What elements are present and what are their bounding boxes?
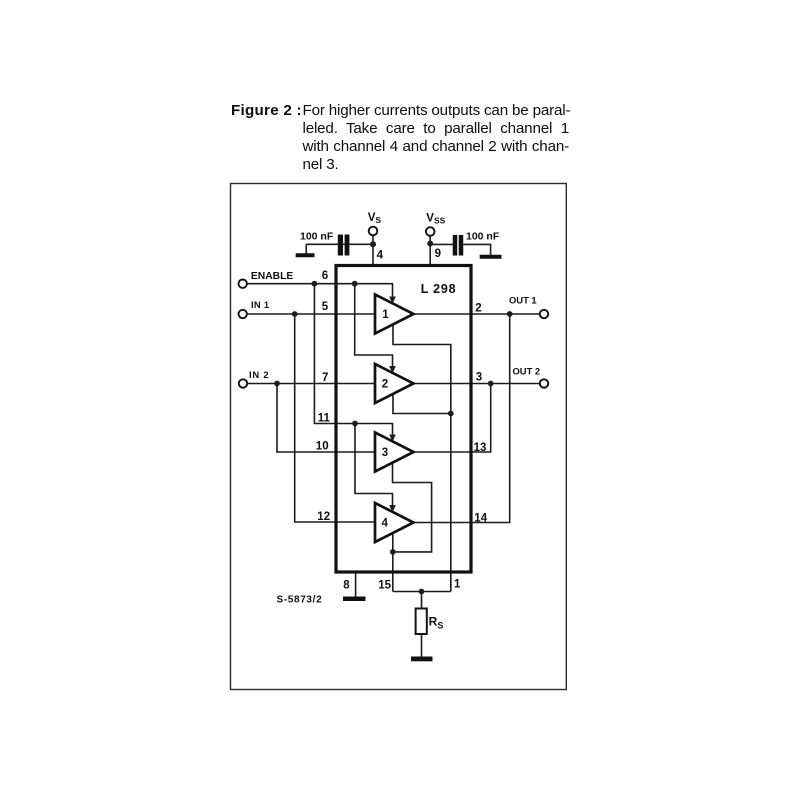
svg-text:OUT 1: OUT 1 — [509, 295, 537, 306]
svg-text:2: 2 — [475, 303, 481, 315]
arrowhead into amp2 — [389, 366, 396, 373]
Vss terminal circle — [426, 227, 435, 236]
wire dot A down to pin 11 row — [314, 284, 392, 436]
svg-text:12: 12 — [317, 511, 330, 523]
wire Vss to node — [429, 236, 431, 244]
svg-text:S: S — [375, 215, 381, 225]
node dot under Vs — [370, 241, 376, 247]
wire C1 to ground — [305, 244, 307, 254]
wire IN2 to pin 7 — [247, 383, 375, 385]
wire Vs to node — [372, 235, 374, 244]
svg-text:SS: SS — [434, 216, 446, 226]
wire joining pin 15 and pin 1 — [393, 591, 451, 593]
terminal IN2 — [239, 379, 247, 387]
svg-text:1: 1 — [454, 579, 461, 591]
wire IN2 dot down to pin 10 row — [277, 384, 375, 453]
svg-text:IN 1: IN 1 — [251, 299, 269, 310]
node dot on IN1 line — [292, 311, 298, 317]
node dot on pin 11 row — [352, 421, 358, 427]
arrowhead into amp3 — [389, 435, 396, 442]
svg-text:13: 13 — [474, 442, 487, 454]
terminal OUT2 — [540, 379, 548, 387]
figure caption — [231, 101, 571, 103]
ground bar below Rs — [411, 657, 433, 662]
wire Vss node to capacitor C2 — [430, 243, 453, 245]
svg-text:4: 4 — [377, 250, 384, 262]
node dot on IN2 line — [274, 381, 280, 387]
node dot B on ENABLE line — [352, 281, 358, 287]
ground bar pin 8 — [343, 597, 366, 602]
svg-text:ENABLE: ENABLE — [251, 271, 293, 282]
ground bar left — [296, 253, 315, 257]
wire amp4 output pin 14 up to OUT1 — [414, 314, 510, 523]
svg-text:10: 10 — [316, 441, 329, 453]
svg-text:4: 4 — [382, 517, 389, 529]
wire IN1 dot down to pin 12 row — [295, 314, 375, 522]
svg-text:11: 11 — [318, 413, 331, 425]
wire C2 to ground — [463, 244, 490, 255]
wire Rs to ground — [421, 634, 423, 657]
wire capacitor C1 to Vs node — [306, 243, 373, 245]
wire amp2 sense down — [393, 393, 451, 413]
svg-text:3: 3 — [476, 372, 482, 384]
terminal ENABLE — [239, 280, 247, 288]
svg-text:7: 7 — [322, 372, 328, 384]
wire amp1 sense down — [393, 324, 451, 414]
wire amp2 output to OUT2 — [414, 383, 540, 385]
capacitor C1 plates — [338, 235, 343, 256]
wire amp4 sense down to pin 15 — [392, 533, 394, 592]
svg-text:1: 1 — [382, 309, 389, 321]
node dot A on ENABLE line — [312, 281, 318, 287]
node dot under Vss — [427, 241, 433, 247]
node dot on OUT1 line — [507, 311, 513, 317]
node dot sense A join — [448, 411, 454, 417]
svg-text:8: 8 — [343, 580, 350, 592]
node dot at Rs top — [419, 589, 425, 595]
wire dot B to amp2 enable — [355, 284, 393, 368]
svg-text:L 298: L 298 — [421, 282, 457, 296]
svg-text:6: 6 — [322, 270, 328, 282]
svg-text:S-5873/2: S-5873/2 — [277, 595, 323, 606]
resistor Rs body — [416, 609, 427, 635]
node dot sense B join — [390, 549, 396, 555]
ground bar right — [480, 255, 502, 259]
op-amp 1 — [375, 295, 414, 334]
op-amp 3 — [375, 433, 414, 472]
wire Vss node to pin 9 — [429, 244, 431, 266]
capacitor C2 plates — [453, 235, 458, 256]
wire IN1 to pin 5 — [247, 313, 375, 315]
node dot on OUT2 line — [488, 381, 494, 387]
svg-text:S: S — [437, 621, 443, 631]
wire Vs node to pin 4 — [372, 244, 374, 265]
arrowhead into amp4 — [389, 505, 396, 512]
op-amp 4 — [375, 503, 414, 542]
svg-text:14: 14 — [474, 513, 487, 525]
wire amp3 output pin 13 up to OUT2 — [414, 384, 491, 453]
terminal IN1 — [239, 310, 247, 318]
svg-text:5: 5 — [322, 301, 329, 313]
wire amp3 sense down — [393, 462, 432, 552]
border frame — [231, 184, 567, 690]
svg-text:OUT 2: OUT 2 — [513, 365, 541, 376]
terminal OUT1 — [540, 310, 548, 318]
wire pin 8 to ground — [355, 574, 357, 598]
svg-text:R: R — [429, 615, 438, 629]
svg-text:2: 2 — [382, 378, 388, 390]
svg-text:100 nF: 100 nF — [300, 231, 334, 243]
IC box L298 — [336, 266, 471, 573]
wire pin11 dot to amp4 enable — [355, 424, 393, 506]
wire amp1 output to OUT1 — [414, 313, 540, 315]
svg-text:100 nF: 100 nF — [466, 231, 500, 243]
arrowhead into amp1 — [389, 297, 396, 304]
svg-text:3: 3 — [382, 447, 388, 459]
wire sense A down to pin 1 — [450, 414, 452, 592]
wire dot to resistor Rs — [421, 592, 423, 610]
svg-text:15: 15 — [378, 580, 391, 592]
Vs terminal circle — [369, 227, 378, 236]
svg-text:9: 9 — [435, 248, 441, 260]
wire ENABLE to pin 6 and amp1 enable — [247, 284, 393, 298]
svg-text:IN 2: IN 2 — [249, 369, 269, 380]
op-amp 2 — [375, 364, 414, 403]
